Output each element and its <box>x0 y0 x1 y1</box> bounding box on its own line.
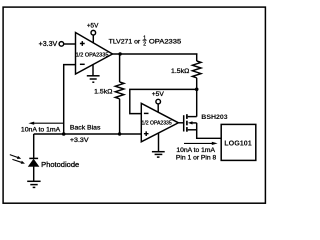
wire node N2 to op-amp U2 inverting input <box>130 89 197 113</box>
junction dot op-amp U1 output <box>118 52 121 55</box>
svg-text:BSH203: BSH203 <box>201 114 228 121</box>
junction dot photodiode node <box>62 132 66 136</box>
MOSFET Q1 source stub <box>188 129 197 131</box>
light arrow 2 into photodiode <box>12 159 25 163</box>
wire op-amp U1 inverting input down to photodiode node <box>64 65 76 134</box>
svg-text:+3.3V: +3.3V <box>70 137 89 144</box>
wire MOSFET source down to LOG101 <box>197 123 222 138</box>
ground under photodiode <box>27 181 40 187</box>
svg-text:2: 2 <box>143 42 146 48</box>
MOSFET Q1 channel segments <box>186 114 188 132</box>
label Pin 1 or Pin 8 <box>176 155 217 162</box>
ground under op-amp U2 <box>152 152 165 157</box>
label BSH203 <box>201 114 228 121</box>
wire resistor R1 bottom to back-bias node <box>119 99 121 134</box>
op-amp U2 plus input symbol <box>144 131 149 136</box>
label Photodiode <box>41 160 79 169</box>
svg-text:1/2 OPA2335: 1/2 OPA2335 <box>142 121 172 127</box>
op-amp U1 plus input symbol <box>80 41 85 46</box>
svg-text:1.5kΩ: 1.5kΩ <box>94 89 112 96</box>
terminal circle +3.3V <box>59 42 64 47</box>
label Back Bias <box>70 124 101 131</box>
wire photodiode anode to ground <box>33 166 35 181</box>
label 1.5kOhm resistor R2 <box>171 68 189 75</box>
op-amp U2 1/2 OPA2335 triangle <box>141 103 178 142</box>
op-amp U2 label 1/2 OPA2335 <box>142 121 172 127</box>
wire back-bias corner down to photodiode <box>33 134 35 158</box>
wire op-amp U2 output to MOSFET gate <box>178 122 183 124</box>
wire op-amp U1 output to feedback node <box>113 53 198 55</box>
svg-text:+3.3V: +3.3V <box>39 41 58 48</box>
svg-text:Pin 1 or Pin 8: Pin 1 or Pin 8 <box>176 155 217 162</box>
light arrow 1 into photodiode <box>10 155 21 159</box>
svg-text:Back Bias: Back Bias <box>70 124 101 131</box>
wire +5V to op-amp U2 top <box>157 104 159 113</box>
node +3.3V input terminal label <box>39 41 58 48</box>
label TLV271 or 1/2 OPA2335 <box>109 35 182 47</box>
op-amp U1 1/2 OPA2335 triangle <box>76 33 113 75</box>
wire output dot down to resistor R1 <box>119 54 121 82</box>
svg-text:Photodiode: Photodiode <box>41 160 79 169</box>
MOSFET Q1 gate bar <box>183 115 185 131</box>
wire feedback top to resistor R2 <box>196 53 198 61</box>
svg-text:1.5kΩ: 1.5kΩ <box>171 68 189 75</box>
photodiode D1 cathode bar <box>29 157 38 159</box>
svg-text:TLV271 or: TLV271 or <box>109 38 141 45</box>
junction dot node N2 <box>195 88 199 92</box>
svg-text:10nA to 1mA: 10nA to 1mA <box>176 147 215 154</box>
photodiode D1 triangle <box>28 159 38 166</box>
MOSFET Q1 body arrow <box>188 121 197 124</box>
junction dot resistor R1 bottom <box>118 132 121 135</box>
wire resistor R2 bottom to node N2 <box>196 78 198 90</box>
op-amp U1 minus input symbol <box>80 63 85 65</box>
label 1.5kOhm resistor R1 <box>94 89 112 96</box>
wire +5V to op-amp U1 top <box>92 35 94 43</box>
wire op-amp U2 bottom to ground <box>158 133 160 152</box>
resistor R1 1.5k zigzag <box>115 82 124 99</box>
label LOG101 <box>224 139 252 148</box>
border frame <box>3 7 265 203</box>
op-amp U1 label 1/2 OPA2335 <box>76 52 109 58</box>
back-bias wire to op-amp U2 non-inverting input <box>34 133 142 135</box>
svg-text:+5V: +5V <box>152 91 165 98</box>
wire +3.3V to op-amp U1 non-inverting input <box>64 43 76 45</box>
LOG101 box U3 <box>221 124 256 160</box>
resistor R2 1.5k zigzag <box>192 61 201 78</box>
+5V terminal circle op-amp U2 <box>156 99 161 104</box>
svg-text:1/2 OPA2335: 1/2 OPA2335 <box>76 52 109 58</box>
ground under op-amp U1 <box>87 76 100 82</box>
label 10nA to 1mA left <box>21 127 61 134</box>
svg-text:+5V: +5V <box>87 23 99 30</box>
svg-text:LOG101: LOG101 <box>224 139 252 148</box>
+5V label op-amp U2 <box>152 91 165 98</box>
svg-text:OPA2335: OPA2335 <box>149 38 182 45</box>
wire node N2 down to MOSFET drain <box>196 89 198 116</box>
label +3.3V back bias <box>70 137 89 144</box>
current arrow 10nA to 1mA left <box>28 122 64 125</box>
label 10nA to 1mA right <box>176 147 215 154</box>
current arrow 10nA to 1mA right <box>184 142 218 145</box>
MOSFET Q1 drain stub <box>188 116 197 118</box>
+5V label op-amp U1 <box>87 23 99 30</box>
wire op-amp U1 bottom to ground <box>92 64 94 76</box>
svg-text:10nA to 1mA: 10nA to 1mA <box>21 127 61 134</box>
op-amp U2 minus input symbol <box>144 112 149 114</box>
+5V terminal circle op-amp U1 <box>91 30 96 35</box>
